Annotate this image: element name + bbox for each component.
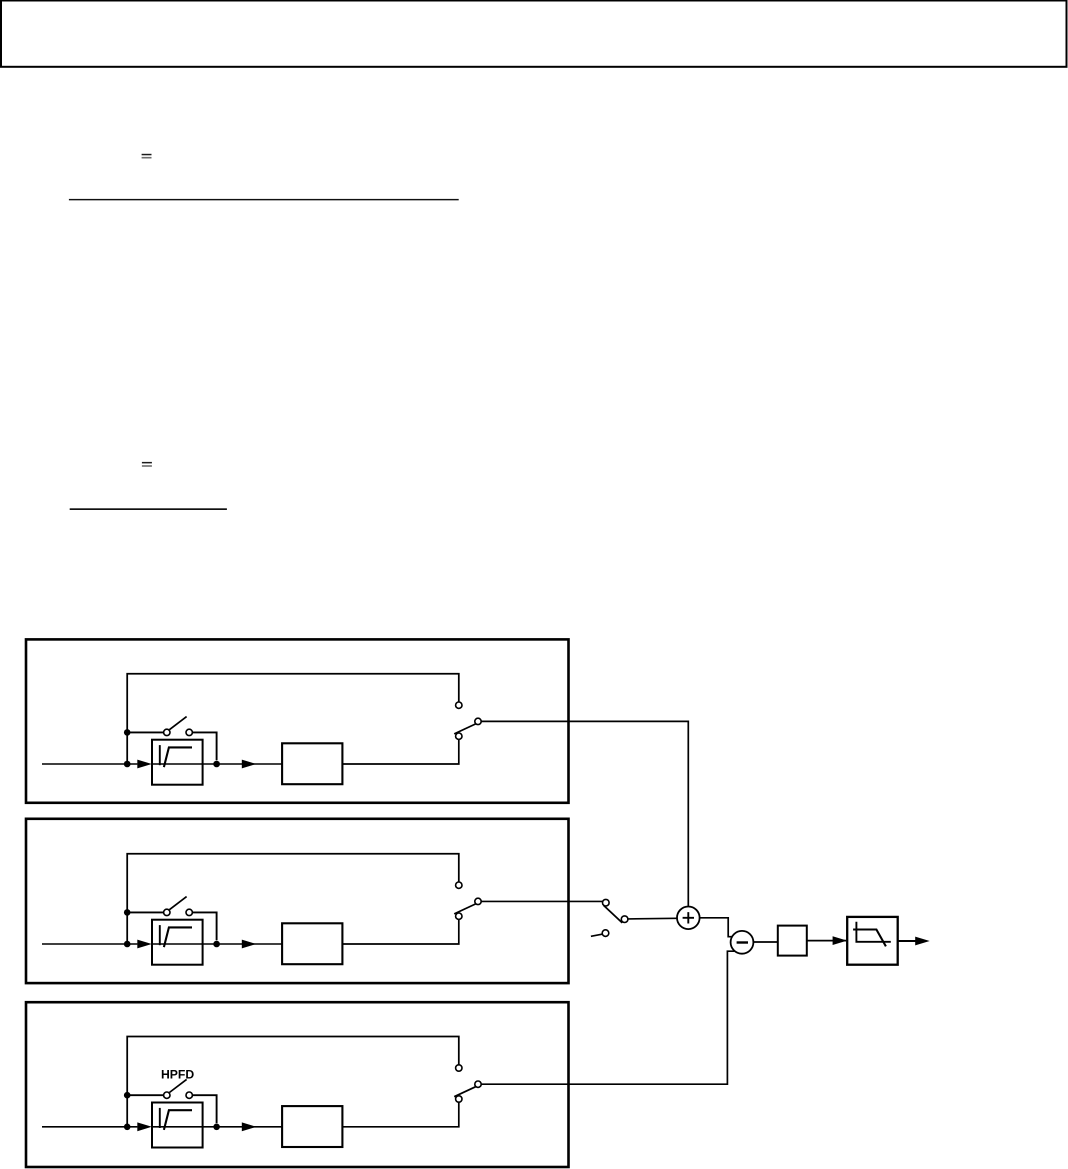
- wire: channel 2 input: [42, 943, 137, 945]
- summing junction (+): [677, 907, 700, 930]
- wire: selector S4 pole to summer: [628, 917, 677, 920]
- wire: channel 3 tap to bypass switch: [127, 1094, 163, 1096]
- F3 icon: high-pass response curve: [164, 1110, 192, 1130]
- wire: channel 2 gain output to selector switch: [342, 920, 458, 944]
- rule under equation 2: [70, 508, 227, 510]
- wire: channel 3 output to subtractor minus input: [481, 951, 734, 1084]
- wire: channel 1 input: [42, 763, 137, 765]
- low-pass filter block F4: [847, 917, 898, 965]
- switch S2b lower throw contact (filtered path): [456, 913, 462, 919]
- node: channel 1 input junction: [124, 761, 131, 768]
- switch S4 blade: [604, 905, 623, 923]
- header box (empty title block): [1, 1, 1067, 67]
- switch S3b lower throw contact (filtered path): [456, 1096, 462, 1102]
- F3 icon: vertical axis: [159, 1108, 161, 1128]
- F2 icon: vertical axis: [159, 925, 161, 945]
- node: channel 1 bypass tap junction: [124, 729, 131, 736]
- switch S2b pole contact: [475, 898, 481, 904]
- switch S2a blade (HPFD bypass switch, open): [169, 897, 186, 910]
- gain block G2: [282, 923, 342, 964]
- arrowhead: channel 3 input: [137, 1122, 152, 1131]
- wire: channel 2 bypass jog down to filter output node: [193, 912, 217, 940]
- wire: channel 2 output to selector S4: [481, 900, 602, 902]
- wire: channel 3 feedforward (riser, top run, drop to switch throw): [127, 1037, 459, 1127]
- gain block G1: [282, 743, 342, 784]
- F2 icon: high-pass response curve: [164, 927, 192, 947]
- gain block G3: [282, 1106, 342, 1147]
- switch S3a left contact: [164, 1092, 170, 1098]
- node: channel 3 filter output junction: [213, 1124, 220, 1131]
- switch S1a blade (HPFD bypass switch, open): [169, 717, 186, 730]
- equals sign of equation 2: [142, 462, 152, 467]
- wire: channel 2 through filter to gain block: [152, 943, 282, 945]
- F1 icon: high-pass response curve: [164, 747, 192, 767]
- switch S1b pole contact: [475, 718, 481, 724]
- node: channel 2 filter output junction: [213, 941, 220, 948]
- svg-text:HPFD: HPFD: [161, 1068, 194, 1082]
- switch S3a right contact: [186, 1092, 192, 1098]
- channel 2 enclosure: [26, 819, 569, 983]
- wire: summer output to subtractor plus input: [700, 918, 733, 937]
- switch S4 unused throw stub wire: [591, 934, 602, 936]
- wire: channel 3 bypass jog down to filter output node: [193, 1095, 217, 1123]
- wire: channel 3 gain output to selector switch: [342, 1102, 458, 1126]
- equals sign of equation 1: [142, 154, 152, 159]
- switch S3b pole contact: [475, 1081, 481, 1087]
- wire: scaling block to low-pass filter: [807, 940, 846, 942]
- switch S3b blade: [454, 1087, 476, 1097]
- wire: channel 1 through filter to gain block: [152, 763, 282, 765]
- switch S2b blade: [454, 904, 476, 914]
- switch S1b upper throw contact (feedforward): [456, 702, 462, 708]
- F4 icon: low-pass response curve: [853, 930, 886, 947]
- high-pass filter block F1: [152, 740, 203, 785]
- node: channel 2 input junction: [124, 941, 131, 948]
- arrowhead: final output: [915, 937, 930, 946]
- high-pass filter block F3: [152, 1103, 203, 1148]
- switch S1b lower throw contact (filtered path): [456, 733, 462, 739]
- wire: channel 3 through filter to gain block: [152, 1126, 282, 1128]
- wire: subtractor output to scaling block: [753, 941, 777, 943]
- rule under equation 1: [69, 199, 459, 200]
- wire: channel 1 output to summing node: [481, 721, 688, 906]
- node: channel 2 bypass tap junction: [124, 909, 131, 916]
- arrowhead: channel 1 into gain block: [242, 760, 256, 769]
- F4 icon: axes: [856, 922, 890, 942]
- wire: output: [898, 940, 916, 942]
- node: channel 1 filter output junction: [213, 761, 220, 768]
- switch S1a right contact: [186, 729, 192, 735]
- wire: channel 2 feedforward (riser, top run, drop to switch throw): [127, 854, 459, 944]
- subtractor junction (-): [731, 931, 754, 954]
- channel 1 enclosure: [26, 639, 569, 802]
- switch S1b blade: [454, 724, 476, 734]
- node: channel 3 bypass tap junction: [124, 1092, 131, 1099]
- wire: channel 1 bypass jog down to filter output node: [193, 732, 217, 760]
- wire: channel 1 gain output to selector switch: [342, 740, 458, 764]
- channel 3 enclosure: [26, 1002, 569, 1167]
- wire: channel 2 tap to bypass switch: [127, 911, 163, 913]
- switch S3b upper throw contact (feedforward): [456, 1065, 462, 1071]
- wire: channel 1 tap to bypass switch: [127, 731, 163, 733]
- wire: channel 3 input: [42, 1126, 137, 1128]
- switch S3a blade (HPFD bypass switch, open): [169, 1079, 186, 1092]
- switch S4 unused throw contact: [602, 930, 609, 937]
- switch S4 input contact (from channel 2): [603, 899, 610, 906]
- wire: channel 1 feedforward (riser, top run, drop to switch throw): [127, 674, 459, 764]
- arrowhead: channel 2 input: [137, 940, 152, 949]
- switch S4 pole contact: [621, 916, 628, 923]
- switch S2b upper throw contact (feedforward): [456, 882, 462, 888]
- F1 icon: vertical axis: [159, 745, 161, 765]
- switch S1a left contact: [164, 729, 170, 735]
- node: channel 3 input junction: [124, 1124, 131, 1131]
- arrowhead: channel 3 into gain block: [242, 1122, 256, 1131]
- high-pass filter block F2: [152, 920, 203, 965]
- arrowhead: into low-pass filter: [833, 936, 848, 945]
- switch S2a left contact: [164, 909, 170, 915]
- switch S2a right contact: [186, 909, 192, 915]
- arrowhead: channel 2 into gain block: [242, 940, 256, 949]
- arrowhead: channel 1 input: [137, 760, 152, 769]
- scaling block K: [778, 926, 807, 956]
